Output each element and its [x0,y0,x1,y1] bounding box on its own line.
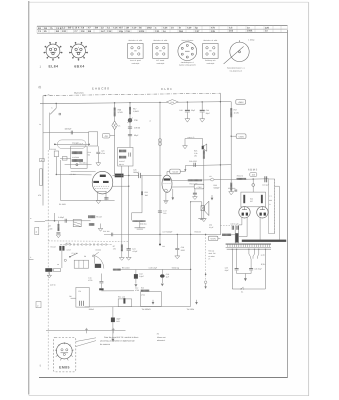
extra speaker jack [202,146,204,150]
triode tube EABC80 [92,171,113,194]
R1 wire [55,157,57,175]
capacitor C29 [193,163,195,167]
svg-text:afstemind.: afstemind. [157,339,166,342]
dashed stub C30 [220,225,233,227]
resistor R2 [62,157,67,161]
det lower wire [71,170,96,172]
capacitor C14 block [111,318,115,323]
svg-text:C32 0,1μF: C32 0,1μF [231,223,239,226]
resistor R17 [129,107,131,114]
svg-text:Aansluitingen v.d.: Aansluitingen v.d. [181,61,195,64]
svg-text:6BX4: 6BX4 [74,65,84,69]
volume line [85,305,191,308]
svg-text:C27: C27 [195,30,200,33]
svg-text:2,2M: 2,2M [48,227,52,230]
svg-text:C16 100: C16 100 [103,230,109,233]
svg-text:a: a [30,218,31,220]
rail cross b [112,328,114,333]
node rail2/x202 [202,101,203,102]
ground R6 [100,224,102,229]
svg-text:uitvoering via geschikt en bij: uitvoering via geschikt en bijbehorende [100,339,135,342]
node grid x253 [253,178,254,179]
node x128 y175 [128,175,129,176]
choke diamond L11 [210,178,214,181]
svg-text:R14 1MΩ: R14 1MΩ [79,162,87,165]
keyswitch bar [60,243,112,245]
resistor R6 [89,223,94,226]
main vertical wire x160 [159,102,161,243]
R25 wire [203,145,205,218]
svg-text:R1 1M: R1 1M [51,148,57,151]
tube cathode [98,190,107,192]
electrolytic C24 wire [128,241,130,248]
cap common ground [237,270,252,273]
svg-text:C21: C21 [155,30,160,33]
tube grid dashes [94,185,110,187]
svg-text:R25: R25 [194,149,197,152]
pilot lamp [204,281,207,284]
svg-text:Voet v.d. spoel: Voet v.d. spoel [130,59,142,62]
wire tag49 to bus [110,135,115,137]
HT rail 1 (dash-dot) [43,93,220,95]
svg-text:C19: C19 [132,27,137,30]
svg-text:5000pF: 5000pF [214,187,221,190]
capacitor C6 [64,219,66,223]
rotary contact [92,255,94,257]
output transformer box [241,192,266,207]
svg-text:banden onderaanzicht: banden onderaanzicht [179,64,196,67]
ground extra speaker [183,146,188,149]
svg-text:(I): (I) [39,85,42,89]
driver tube EL84 [162,175,172,192]
svg-text:R29 1M: R29 1M [195,230,202,233]
ratio det coil S15 [72,159,83,162]
resistor R5 [88,215,95,218]
svg-text:zie tekst: zie tekst [208,255,215,258]
svg-text:+250V: +250V [238,135,245,138]
svg-text:R3: R3 [48,225,50,228]
trimmer C38 [128,118,132,122]
V4 top electrode [242,209,247,211]
svg-text:1k 1W: 1k 1W [234,111,239,114]
svg-text:Voet v.d. buizen: Voet v.d. buizen [181,39,193,42]
tag box 4b [35,227,39,234]
anode bar left [93,181,99,183]
svg-text:C23: C23 [101,150,104,153]
feedback wire from rail1 [219,93,221,235]
capacitor C40 [128,134,132,136]
long vertical to tone pots [190,202,192,307]
paper bottom edge [29,395,309,397]
capacitor R3 foot [56,232,60,234]
box input unit [89,132,98,146]
switch blade lower [70,253,78,257]
svg-text:1W: 1W [194,155,197,158]
svg-text:50μΩ afsch.: 50μΩ afsch. [74,91,85,94]
svg-text:C34 1μF: C34 1μF [262,184,269,187]
svg-text:0,1μF: 0,1μF [209,226,213,229]
vertical from IF box left [121,166,123,241]
svg-text:+272V: +272V [210,238,216,241]
svg-text:220: 220 [163,212,166,215]
lamp L5 (diamond) [112,121,118,130]
down arrow b [196,300,198,303]
V4 cathode wire a [239,217,242,225]
svg-text:S1: S1 [241,291,243,294]
svg-text:220k: 220k [139,30,145,33]
pointer line lower [76,341,96,347]
nodes on tone line [159,234,160,235]
IF can bottom view [178,42,197,61]
transformer winding left [243,195,245,203]
electrolytic C43 [186,102,188,110]
svg-text:R24: R24 [171,101,174,104]
svg-text:onderzijde: onderzijde [157,62,165,65]
svg-text:onderzijde: onderzijde [132,62,140,65]
ground R25 [201,218,206,221]
R23 wire [121,241,123,244]
EM85 socket circle [56,343,72,359]
pickup box [76,287,89,307]
svg-text:EABC80: EABC80 [92,86,110,90]
cathode caps dark [104,197,108,199]
grid wire to triode [56,174,91,176]
transformer bottom view Drukknop sch. [203,43,218,58]
V4 anode blocks [242,213,244,216]
pickup contact pair [59,246,61,251]
frame right border [286,30,288,378]
resistor R22 [133,220,146,222]
svg-text:C11: C11 [88,277,91,280]
aerial coil bracket [40,169,43,186]
AM line wire [43,131,89,133]
svg-text:4700: 4700 [135,289,139,292]
svg-text:R4 1M: R4 1M [51,246,57,249]
svg-text:R26 0,5M: R26 0,5M [190,182,198,185]
capacitor C36 [249,268,253,270]
capacitor C24 [127,248,131,250]
tube socket view EL84 [44,42,62,60]
svg-text:R17: R17 [133,107,136,110]
svg-text:170: 170 [113,248,116,251]
svg-text:TW 100k: TW 100k [187,308,195,311]
svg-text:Alleen met: Alleen met [157,336,166,339]
mains section top wire [227,248,271,250]
ratio detector box [71,146,87,168]
svg-text:R9 2,2kΩ: R9 2,2kΩ [122,267,130,270]
svg-text:C27 5000pF: C27 5000pF [163,230,174,233]
svg-text:C33 5000: C33 5000 [228,187,235,190]
capacitor C13 block [134,274,138,279]
screen wire into transformer [252,186,254,192]
svg-text:S27: S27 [250,200,253,203]
parts table middle rule [37,28,288,31]
terminal strip ticks [228,244,270,247]
svg-text:R21: R21 [145,191,148,194]
svg-text:C36 50μF: C36 50μF [254,268,261,271]
svg-text:C9 220: C9 220 [96,249,102,252]
input stub wire [35,220,46,222]
svg-text:R32 470: R32 470 [237,175,243,178]
svg-text:C16: C16 [126,30,131,33]
tone feed line [113,268,191,270]
output tube V5 [257,207,268,218]
lower contact block b [54,268,61,271]
treble line [101,290,134,292]
svg-text:L11: L11 [209,175,212,178]
svg-text:R28: R28 [214,184,217,187]
ground C23 [96,163,101,166]
ground lower [48,272,50,275]
svg-text:1M: 1M [81,30,84,33]
resistor R3 [58,224,60,231]
drop arrow to C29 line [184,166,186,172]
det out wire [65,164,92,166]
lower contact block a [45,268,52,272]
svg-text:R34 1Ω: R34 1Ω [208,249,215,252]
svg-text:10k: 10k [211,30,216,33]
svg-text:47k: 47k [38,194,41,197]
switch S5 blade [50,108,56,114]
ground C46 [193,197,198,200]
capacitor C17 [158,210,162,212]
fuse lamp upper [158,139,161,142]
fuse lamp lower [158,142,161,145]
loudspeaker box [269,179,275,234]
svg-text:EL84: EL84 [48,65,58,69]
svg-text:C12: C12 [135,286,138,289]
svg-text:1 Omw.: 1 Omw. [248,38,255,41]
speaker ground [201,211,203,219]
svg-text:S26: S26 [250,198,253,201]
svg-text:Uiteinden v.d. wikk.: Uiteinden v.d. wikk. [203,39,218,42]
HT rail 2 [40,102,231,104]
svg-text:het afstemmech.: het afstemmech. [230,69,243,72]
wire +272V to feedback [218,237,221,239]
voltage box +7,6V [194,184,204,189]
node x220 y164.8 [220,164,221,165]
rotary arc [95,256,104,269]
parts table bottom rule [37,32,288,35]
svg-text:EM85: EM85 [59,366,70,370]
screen feed wire x130 [129,103,131,148]
extra speaker wire [185,139,203,146]
wire box to node [180,171,185,173]
svg-text:245: 245 [252,174,255,177]
driver cathode circle [164,189,167,192]
down arrow a [152,300,154,303]
resistor R32 [236,178,246,180]
svg-text:Stand afstemwijzer t.o.v.: Stand afstemwijzer t.o.v. [227,67,246,70]
dashed chassis line left [47,150,49,371]
parts table column separators [37,26,288,33]
shield loop [58,140,87,149]
cathode ground wire y200 [60,199,114,201]
svg-text:a₀: a₀ [39,123,41,126]
EM85 inner electrodes [61,349,63,351]
thermistor element [123,298,125,303]
driver grid dash [163,182,170,184]
svg-text:C43: C43 [179,109,182,112]
resistor R25 [203,150,205,159]
mains left wire [231,249,233,289]
boxed tag 49 [102,133,110,138]
capacitor C19 [160,274,165,278]
svg-text:B5 C: B5 C [68,27,74,30]
node rail2/x187 [187,101,188,102]
svg-text:R2 1MΩ: R2 1MΩ [59,203,66,206]
C11 branch [100,274,102,282]
shielded lead wire [55,143,89,145]
svg-text:C24: C24 [132,247,135,250]
svg-text:1,2k: 1,2k [194,152,197,155]
svg-text:R13: R13 [141,287,144,290]
IF coil lower [119,156,126,159]
C19 branch [161,269,163,274]
wire to +250V box [231,135,236,137]
choke dark bar [99,288,103,290]
grid wire y220 [45,220,91,222]
svg-text:de antenne: de antenne [100,343,111,346]
capacitor C32a [231,226,233,230]
svg-text:6,3V~: 6,3V~ [261,263,267,266]
det link wire [60,157,71,159]
svg-text:R27: R27 [234,109,237,112]
svg-text:100 5pF: 100 5pF [65,128,73,131]
svg-text:4n7: 4n7 [101,30,106,33]
paper right edge [308,2,310,396]
svg-text:(*): (*) [157,332,159,335]
svg-text:+7,6V: +7,6V [196,186,202,189]
paper top edge [29,1,309,3]
ground C28 [175,256,180,259]
svg-text:onderzijde: onderzijde [207,62,215,65]
down arrow near speaker [211,195,213,199]
capacitor C22 [70,131,72,135]
svg-text:R11 1,2k: R11 1,2k [118,295,125,298]
svg-text:mind. 2W: mind. 2W [208,252,216,255]
svg-text:39p: 39p [119,30,124,33]
ground C24 [126,257,131,260]
resistor R20 [114,108,116,117]
svg-text:S8: S8 [84,255,86,258]
left tag box 4 [40,158,45,161]
node on rail 1 [45,95,46,96]
svg-text:Drukknop sch.: Drukknop sch. [205,59,216,62]
terminal strip frame [226,243,271,245]
svg-text:C29 4700: C29 4700 [189,160,197,163]
ground C44 [200,119,205,122]
frame left border [28,1,30,395]
junction ring [76,164,78,166]
node rail2/x56 [56,103,57,104]
IF coil upper [119,150,126,153]
svg-text:C13: C13 [139,273,142,276]
driver heater arrow [172,189,174,199]
dashed pilot wire [205,234,207,281]
svg-text:R8: R8 [69,295,71,298]
svg-text:2n2: 2n2 [229,30,234,33]
voltage box +272V [208,236,218,240]
anode out wire [172,179,188,181]
wire from contacts [61,251,63,268]
FM IF box [118,147,133,166]
grid long wire to output [202,179,269,180]
svg-text:za: za [57,264,59,266]
svg-text:C29: C29 [187,26,192,29]
svg-text:5000pF: 5000pF [133,171,140,174]
svg-text:C15 50: C15 50 [50,284,56,287]
tube socket view 6BX4 [69,42,87,60]
svg-text:C12: C12 [107,30,112,33]
svg-text:5,7kΩ: 5,7kΩ [118,111,124,114]
V5 top electrode [260,209,265,211]
anode feed wire x114 [114,103,116,174]
cathode cap wire [194,189,196,193]
voltage box +250V [236,134,246,139]
driver cathode ground [165,192,167,200]
svg-text:C21 0,5μF: C21 0,5μF [75,143,84,146]
cathode wire to +7,6V [172,186,194,188]
svg-text:C35: C35 [225,266,228,269]
svg-text:extra L.S.: extra L.S. [188,136,196,139]
electrolytic C44 [201,102,203,110]
heater cap C35 wire [236,249,238,268]
svg-text:Uiteinden v.d. wikk.: Uiteinden v.d. wikk. [153,39,168,42]
svg-text:za zb: za zb [261,254,265,257]
svg-text:C38: C38 [134,119,137,122]
pickup caps [79,301,81,306]
svg-text:C7 50: C7 50 [66,242,71,245]
voltage box +12,5V [170,169,180,174]
left bus wire [42,96,44,206]
IF trim caps [128,153,130,157]
resistor R13 [141,290,150,292]
svg-text:500Ω log: 500Ω log [172,267,179,270]
chassis rail bottom [46,330,126,332]
svg-text:C44: C44 [206,109,209,112]
svg-text:R20: R20 [118,108,121,111]
loudness branch [112,307,114,318]
output tube V4 [239,207,250,218]
transformer bottom view Voet v.d. spoel [128,43,143,58]
svg-text:5000: 5000 [181,249,185,252]
svg-text:EL84: EL84 [161,87,172,91]
speaker box dashed edge [274,179,276,234]
ratio det coil S14 [72,151,83,154]
vertical AVC wire [132,176,142,221]
resistor R1 [54,151,58,157]
svg-text:b: b [78,46,79,49]
svg-text:C8 47: C8 47 [67,248,72,251]
resistor R3 wire [57,221,59,224]
ground R3 [56,235,60,238]
svg-text:C18 0,5μF: C18 0,5μF [149,267,158,270]
tone pot box [141,292,162,307]
svg-text:L5: L5 [118,124,120,127]
svg-text:+10μF: +10μF [132,250,138,253]
anode plate top [100,175,106,177]
parts table row 1 text [38,26,270,30]
mains bottom wire [232,288,241,290]
V4 cathode wire b [239,218,248,237]
svg-text:Daar de extra B.B.T.K. aanslui: Daar de extra B.B.T.K. aansluit in deze [104,336,139,339]
screen ring [252,184,255,187]
R2 wire down [59,160,61,200]
wire to winding [231,234,235,236]
fuse diamond R24 [166,100,178,105]
parts table row 2 text [38,30,268,34]
